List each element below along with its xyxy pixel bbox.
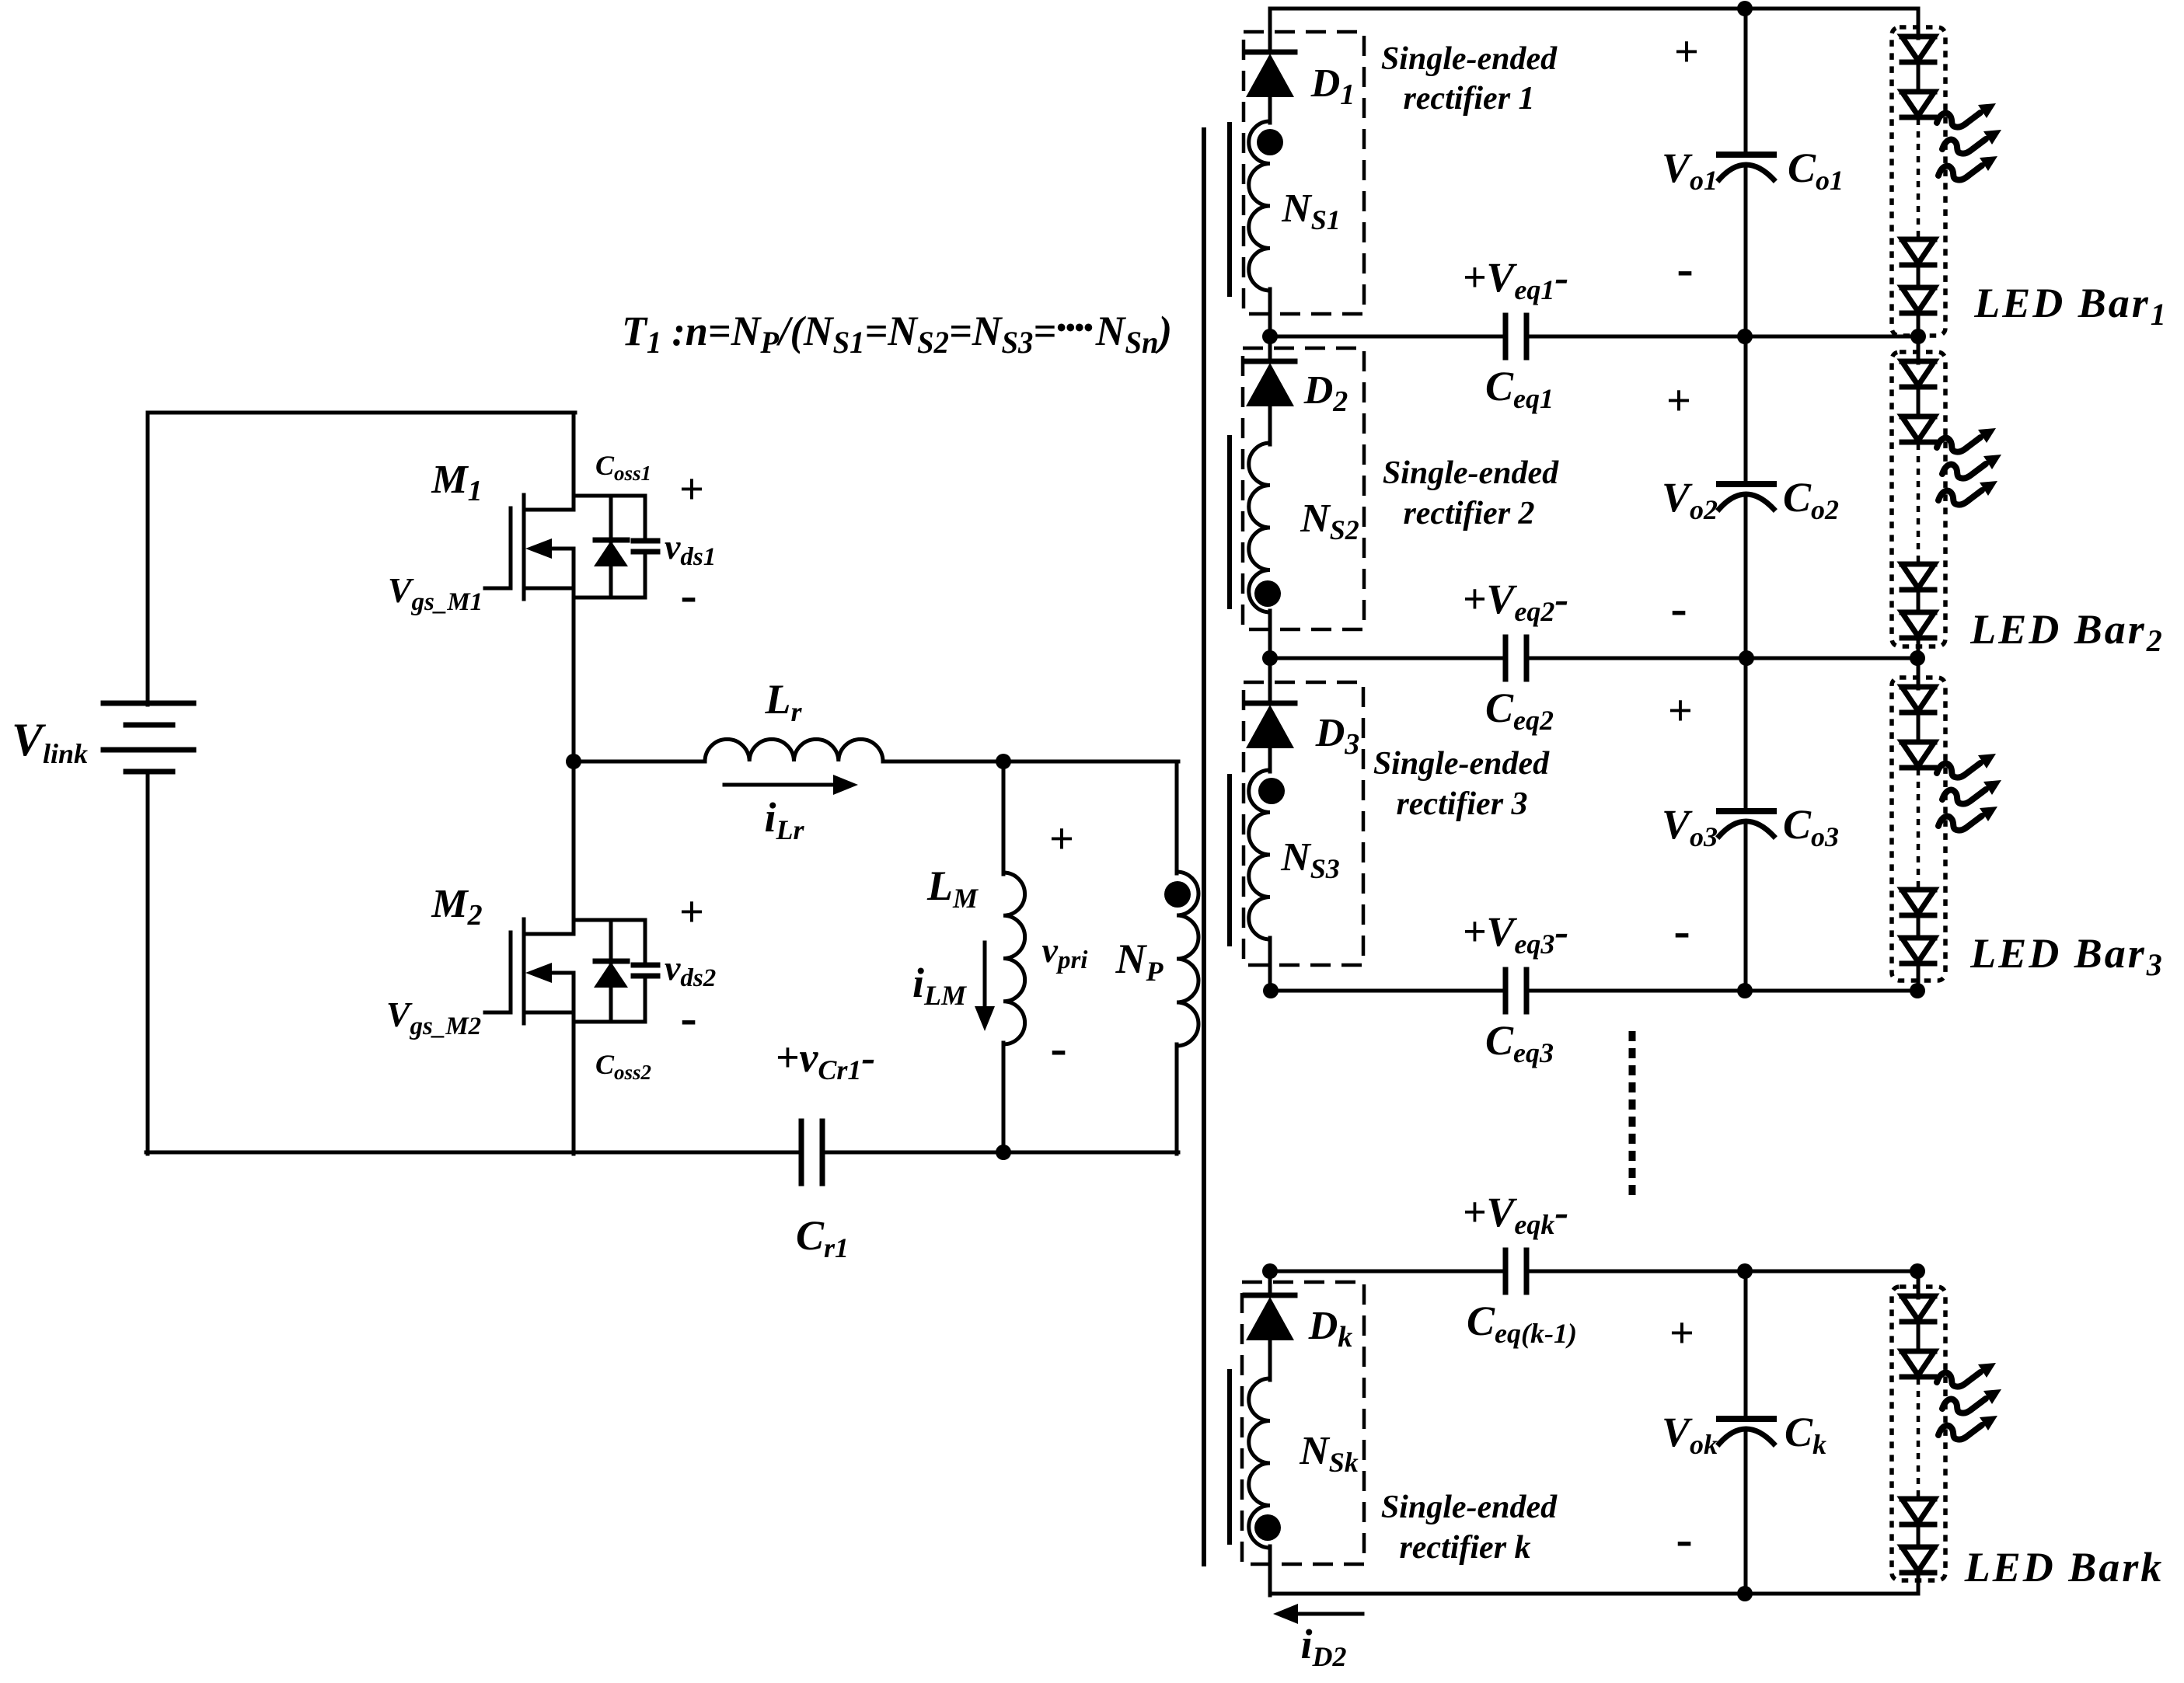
transformer core segment NS1 <box>1227 124 1232 294</box>
capacitor Ceq2 <box>1503 637 1509 679</box>
battery Vlink <box>103 701 194 706</box>
svg-text:LED Bar2: LED Bar2 <box>1969 606 2165 658</box>
box single-ended rectifier 1 <box>1244 32 1364 314</box>
svg-text:+: + <box>1669 1309 1694 1357</box>
wire M2 source rail to bottom <box>572 973 576 1154</box>
wire LED Bark bottom lead <box>1917 1573 1921 1594</box>
LED 2 of LED Bar2 <box>1902 414 1935 420</box>
wire D1 to NS1 <box>1268 97 1272 123</box>
node Co2 bottom junction <box>1739 650 1754 666</box>
node LED bar3 bottom junction <box>1910 983 1925 998</box>
light emission arrows of LED Bar1 <box>1937 103 1996 127</box>
wire LED Bar3 dotted continuation <box>1917 769 1921 888</box>
light emission arrows of LED Bar2 <box>1937 428 1996 452</box>
wire M1 source rail to mid node <box>572 549 576 763</box>
svg-text:+: + <box>1668 687 1693 735</box>
transformer core segment NS3 <box>1227 776 1232 944</box>
wire battery negative lead <box>146 772 150 1154</box>
transformer core segment NS2 <box>1227 437 1232 607</box>
node LED bark top junction <box>1910 1263 1925 1279</box>
wire LED Bar1 seg2 <box>1917 265 1921 287</box>
LED string LED Bar2 box <box>1892 352 1945 646</box>
LED 4 of LED Bar2 <box>1902 610 1935 615</box>
capacitor Co3 <box>1744 658 1748 811</box>
node NS2 polarity dot <box>1254 580 1281 607</box>
capacitor Ck <box>1744 1271 1748 1419</box>
wire NS3 bottom lead <box>1268 938 1272 991</box>
svg-text:rectifier 3: rectifier 3 <box>1396 786 1527 822</box>
diode Dk <box>1268 1271 1272 1295</box>
svg-text:-: - <box>1050 1020 1066 1075</box>
winding NS3 <box>1249 770 1270 939</box>
wire NSk bottom lead <box>1268 1546 1272 1595</box>
svg-text:-: - <box>680 990 696 1045</box>
svg-text:LED Bar3: LED Bar3 <box>1969 930 2165 982</box>
transistor M2 source arrow <box>544 971 574 975</box>
wire Dk to NSk <box>1268 1340 1272 1380</box>
wire NS1 bottom lead <box>1268 289 1272 336</box>
LED 1 of LED Bark <box>1902 1294 1935 1299</box>
wire mid node to Lr <box>574 760 705 764</box>
node Ck top junction <box>1737 1263 1753 1279</box>
diode body diode of M2 <box>609 920 613 963</box>
wire bottom rail right of Cr1 <box>822 1151 1178 1155</box>
wire LED Bar3 seg2 <box>1917 915 1921 938</box>
node rail2 left junction <box>1262 650 1278 666</box>
LED 1 of LED Bar1 <box>1902 34 1935 40</box>
wire M2 cell top <box>574 918 645 922</box>
inductor LM magnetizing <box>1003 873 1025 1044</box>
node Ck bottom junction <box>1737 1586 1753 1601</box>
LED string LED Bark box <box>1892 1287 1945 1580</box>
wire LM top lead <box>1002 761 1006 874</box>
transistor M2 gate bar <box>509 932 513 1012</box>
capacitor Coss2 <box>644 920 647 965</box>
svg-text:Single-ended: Single-ended <box>1381 41 1558 77</box>
wire rail k left of Ceq(k-1) <box>1270 1270 1505 1274</box>
transistor M1 drain lead <box>524 508 574 512</box>
node LM top junction <box>996 754 1011 769</box>
svg-text:LED Bar1: LED Bar1 <box>1973 280 2168 332</box>
wire bottom rail k <box>1270 1592 1917 1596</box>
winding NS2 <box>1249 443 1270 612</box>
wire LED Bar1 dotted continuation <box>1917 119 1921 238</box>
box single-ended rectifier k <box>1242 1282 1364 1564</box>
wire LED Bar3 bottom lead <box>1917 963 1921 991</box>
arrow iD2 current <box>1292 1612 1362 1616</box>
wire NS2 bottom lead <box>1268 611 1272 658</box>
node Co1 top junction <box>1737 1 1753 16</box>
diode body diode of M1 <box>609 496 613 542</box>
transformer core segment NSk <box>1227 1371 1232 1542</box>
wire rail3 left of Ceq3 <box>1271 989 1505 993</box>
svg-text:rectifier k: rectifier k <box>1399 1530 1530 1566</box>
node LM bottom junction <box>996 1145 1011 1160</box>
capacitor Cr1 <box>799 1121 804 1183</box>
svg-text:-: - <box>1673 903 1690 958</box>
diode D2 <box>1268 336 1272 361</box>
arrow iLM current <box>983 943 987 1008</box>
node mid-point of half bridge <box>566 754 581 769</box>
winding NSk <box>1249 1378 1270 1548</box>
wire LED Bar1 top lead <box>1917 9 1921 38</box>
transistor M1 gate bar <box>509 508 513 588</box>
node NS3 polarity dot <box>1258 778 1285 804</box>
wire M2 cell bottom <box>574 1020 645 1024</box>
LED string LED Bar1 box <box>1892 27 1945 336</box>
inductor Lr <box>705 739 883 761</box>
wire LED Bar3 top lead <box>1917 658 1921 688</box>
box single-ended rectifier 3 <box>1244 682 1363 965</box>
LED 3 of LED Bar1 <box>1902 237 1935 242</box>
LED 4 of LED Bar3 <box>1902 936 1935 941</box>
winding NS1 <box>1249 121 1270 291</box>
wire bottom rail left of Cr1 <box>146 1151 801 1155</box>
node NS1 polarity dot <box>1257 129 1283 155</box>
box single-ended rectifier 2 <box>1243 348 1364 629</box>
wire LM node to NP top <box>1003 760 1178 764</box>
light emission arrows of LED Bar3 <box>1937 754 1996 778</box>
transistor M1 source arrow <box>544 547 574 551</box>
transistor M2 channel bar <box>522 919 526 1023</box>
svg-text:Single-ended: Single-ended <box>1381 1490 1558 1525</box>
svg-text:Single-ended: Single-ended <box>1383 455 1559 491</box>
wire LED Bar2 bottom lead <box>1917 638 1921 658</box>
wire M1 drain rail <box>572 413 576 510</box>
capacitor Ceq1 <box>1503 315 1509 357</box>
wire rail1 right of Ceq1 <box>1526 335 1918 339</box>
wire Lr to LM node <box>883 760 1005 764</box>
svg-text:LED Bark: LED Bark <box>1964 1544 2165 1591</box>
LED 2 of LED Bar1 <box>1902 89 1935 95</box>
node Co3 bottom junction <box>1737 983 1753 998</box>
svg-text:-: - <box>1676 1511 1692 1566</box>
svg-text:+: + <box>1049 815 1074 863</box>
wire battery positive lead <box>146 413 150 705</box>
wire LED Bar1 seg1 <box>1917 62 1921 92</box>
LED 3 of LED Bar2 <box>1902 562 1935 567</box>
node Co1 bottom junction <box>1737 329 1753 344</box>
wire D2 to NS2 <box>1268 406 1272 444</box>
wire LED Bar1 bottom lead <box>1917 313 1921 336</box>
capacitor Co1 <box>1744 9 1748 155</box>
svg-text:+: + <box>679 465 704 514</box>
wire top rail from Vlink to M1 drain <box>148 411 575 415</box>
wire rail2 left of Ceq2 <box>1270 657 1505 660</box>
transistor M2 drain lead <box>524 932 574 936</box>
transistor M1 source lead <box>524 587 574 591</box>
wire LED Bark seg2 <box>1917 1524 1921 1547</box>
LED 2 of LED Bark <box>1902 1349 1935 1354</box>
capacitor Coss1 <box>644 496 647 541</box>
LED 4 of LED Bark <box>1902 1545 1935 1550</box>
LED 1 of LED Bar2 <box>1902 359 1935 364</box>
LED string LED Bar3 box <box>1892 678 1945 981</box>
transistor M2 source lead <box>524 1011 574 1015</box>
wire NP top lead <box>1175 761 1179 873</box>
node rail k left junction <box>1262 1263 1278 1279</box>
svg-text:-: - <box>1676 241 1693 296</box>
svg-text:-: - <box>680 567 696 622</box>
arrow iLr current <box>724 783 839 787</box>
diode D1 <box>1268 9 1272 52</box>
wire LED Bar2 seg2 <box>1917 590 1921 612</box>
winding NP primary <box>1177 872 1198 1046</box>
wire LED Bar2 seg1 <box>1917 387 1921 416</box>
wire rail2 right of Ceq2 <box>1526 657 1917 660</box>
light emission arrows of LED Bark <box>1937 1363 1996 1387</box>
svg-text:Single-ended: Single-ended <box>1373 746 1550 782</box>
LED 3 of LED Bark <box>1902 1497 1935 1502</box>
wire rail3 right of Ceq3 <box>1526 989 1917 993</box>
wire secondary rail 1 top <box>1270 7 1918 11</box>
LED 2 of LED Bar3 <box>1902 740 1935 745</box>
transistor M2 gate lead <box>485 1011 511 1015</box>
wire LED Bark top lead <box>1917 1271 1921 1298</box>
svg-text:rectifier 1: rectifier 1 <box>1403 81 1534 117</box>
wire LED Bark dotted continuation <box>1917 1378 1921 1497</box>
node rail3 left junction <box>1263 983 1279 998</box>
wire M1 cell bottom <box>574 596 645 600</box>
LED 1 of LED Bar3 <box>1902 685 1935 690</box>
capacitor Co2 <box>1744 336 1748 484</box>
svg-text:+: + <box>679 888 704 936</box>
node NP polarity dot <box>1164 881 1191 908</box>
wire LM bottom lead <box>1002 1043 1006 1154</box>
wire LED Bar2 top lead <box>1917 336 1921 363</box>
wire LED Bark seg1 <box>1917 1322 1921 1351</box>
svg-text:+: + <box>1666 377 1691 425</box>
wire NP bottom lead <box>1175 1044 1179 1154</box>
wire rail1 left of Ceq1 <box>1270 335 1505 339</box>
wire M1 cell top <box>574 494 645 498</box>
capacitor Ceq(k-1) <box>1503 1250 1509 1292</box>
wire D3 to NS3 <box>1268 748 1272 772</box>
svg-text:-: - <box>1670 580 1687 636</box>
node LED bar1 bottom junction <box>1910 329 1926 344</box>
transistor M1 gate lead <box>485 587 511 591</box>
capacitor Ceq3 <box>1503 970 1509 1012</box>
wire LED Bar3 seg1 <box>1917 713 1921 742</box>
transistor M1 channel bar <box>522 495 526 599</box>
LED 3 of LED Bar3 <box>1902 887 1935 893</box>
dotted continuation between section 3 and k <box>1629 1031 1636 1200</box>
LED 4 of LED Bar1 <box>1902 285 1935 291</box>
wire LED Bar2 dotted continuation <box>1917 444 1921 563</box>
wire M2 drain rail <box>572 761 576 934</box>
node rail1 left junction <box>1262 329 1278 344</box>
diode D3 <box>1268 658 1272 703</box>
svg-text:+: + <box>1674 28 1699 76</box>
node NSk polarity dot <box>1254 1514 1281 1541</box>
svg-text:rectifier 2: rectifier 2 <box>1403 496 1534 531</box>
node LED bar2 bottom junction <box>1910 650 1925 666</box>
wire rail k right of Ceq(k-1) <box>1526 1270 1917 1274</box>
transformer core line <box>1202 130 1206 1564</box>
